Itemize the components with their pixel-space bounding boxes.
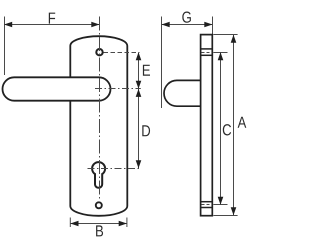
dimension B left extension line	[69, 218, 71, 228]
cylinder axis centerline	[88, 168, 141, 170]
side view top screw hole (hidden)	[201, 48, 213, 50]
top screw hole centerline	[104, 52, 140, 54]
dimension C top arrow	[218, 52, 224, 60]
dimension C bottom arrow	[218, 197, 224, 205]
lever handle (front view)	[3, 77, 111, 100]
dimension D top arrow	[136, 89, 142, 97]
label G	[182, 11, 191, 22]
dimension F line	[4, 24, 100, 26]
dimension G right extension line	[212, 17, 214, 35]
dimension B left arrow	[70, 221, 78, 227]
label E	[143, 65, 150, 76]
dimension A bottom arrow	[231, 207, 237, 215]
dimension G left extension line	[161, 17, 163, 109]
label D	[142, 125, 150, 136]
dimension A top extension line	[213, 34, 237, 36]
dimension B line	[70, 223, 127, 225]
dimension A line	[233, 35, 235, 216]
side view lever grip	[164, 80, 201, 106]
dimension D line	[138, 89, 140, 169]
top screw hole	[96, 49, 102, 55]
label B	[96, 225, 103, 236]
label A	[238, 117, 247, 128]
label C	[223, 124, 231, 135]
dimension G left arrow	[162, 22, 170, 28]
dimension B right extension line	[126, 218, 128, 228]
euro cylinder keyhole	[92, 162, 105, 188]
dimension C line	[220, 53, 222, 205]
dimension D bottom arrow	[136, 160, 142, 168]
side view bottom screw hole (hidden)	[201, 201, 213, 203]
dimension C top extension line	[213, 52, 227, 54]
label F	[49, 13, 55, 24]
dimension E top arrow	[136, 52, 142, 60]
front plate outline	[70, 36, 127, 216]
dimension B right arrow	[119, 221, 127, 227]
dimension C bottom extension line	[213, 204, 227, 206]
dimension A bottom extension line	[213, 215, 237, 217]
dimension E line	[138, 53, 140, 89]
dimension F right arrow	[91, 22, 99, 28]
dimension F extension line	[4, 17, 6, 76]
bottom screw hole	[96, 202, 102, 208]
dimension G right arrow	[204, 22, 212, 28]
dimension E bottom arrow	[136, 81, 142, 89]
handle axis centerline	[95, 88, 141, 90]
side view plate	[201, 35, 213, 216]
dimension G line	[162, 24, 213, 26]
vertical centerline of plate	[99, 17, 101, 200]
dimension F left arrow	[4, 22, 12, 28]
dimension A top arrow	[231, 35, 237, 43]
